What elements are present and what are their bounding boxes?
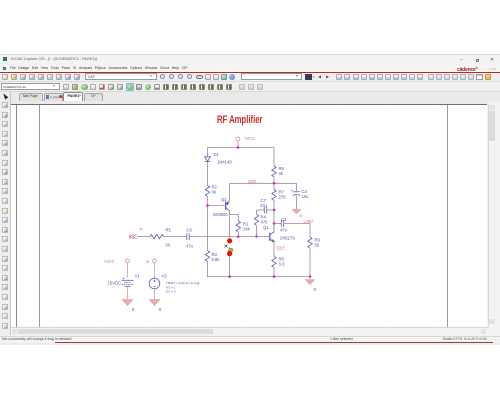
power symbol +VCC top xyxy=(236,137,240,144)
ground 0 bottom right xyxy=(305,277,315,285)
resistor R3 xyxy=(205,251,209,262)
label V1 xyxy=(135,274,141,279)
label D1 xyxy=(214,152,220,157)
wire R1 branch xyxy=(230,215,239,222)
power symbol +VCC left xyxy=(126,259,130,265)
label Q2 xyxy=(221,197,227,202)
wire C3 to load xyxy=(284,224,310,238)
ground 0 under C4 xyxy=(292,210,301,214)
DRC marker bottom red circle xyxy=(227,251,232,256)
resistor R4 xyxy=(254,215,258,226)
label 24k xyxy=(243,227,251,232)
label 47u C3 xyxy=(280,228,288,233)
label 2N5179 xyxy=(280,236,295,241)
wire C6 to Q1 base xyxy=(189,236,269,238)
wire R1 to base rail xyxy=(237,232,239,237)
window bottom edge xyxy=(0,343,500,345)
svg-text:C3: C3 xyxy=(281,217,287,222)
label R9 xyxy=(315,238,321,243)
wire C3 left xyxy=(274,223,281,225)
wire dragged part to ground rail xyxy=(229,256,231,277)
label +VCC top xyxy=(244,136,255,141)
source V2 AC xyxy=(149,278,160,289)
left palette icons xyxy=(1,92,8,99)
junction C3 tap xyxy=(273,222,276,225)
svg-text:3.3: 3.3 xyxy=(279,262,285,267)
bottom scrollbar xyxy=(11,327,488,335)
wire R9 to ground rail xyxy=(309,248,311,277)
svg-text:DC = 0: DC = 0 xyxy=(166,290,176,294)
svg-text:Load: Load xyxy=(304,219,314,224)
wire Q2E rail down to C4 xyxy=(296,183,298,191)
label C7 xyxy=(261,198,267,203)
label R1 xyxy=(243,222,249,227)
wire R4 down to base rail xyxy=(256,225,258,236)
wire C4 to ground xyxy=(296,196,298,210)
svg-text:47u: 47u xyxy=(280,228,288,233)
label 6.8k xyxy=(212,257,221,262)
wire ground rail xyxy=(207,250,209,252)
wire top rail xyxy=(208,147,275,149)
wire rail to D1 xyxy=(207,148,209,157)
wire Q1 emitter down to R8 xyxy=(273,242,275,257)
label C4 xyxy=(302,189,308,194)
label 0 under V2 xyxy=(159,307,162,312)
label 4k xyxy=(279,171,284,176)
resistor R6 xyxy=(272,166,276,177)
svg-text:+VCC: +VCC xyxy=(244,136,255,141)
svg-text:3k: 3k xyxy=(212,190,217,195)
title bar xyxy=(0,55,500,65)
canvas xyxy=(11,101,487,104)
toolbar row 2 xyxy=(0,82,500,92)
label 0 bottom right xyxy=(314,287,317,292)
label R6 xyxy=(279,166,285,171)
left tool palette xyxy=(0,92,11,335)
label 50 R9 xyxy=(315,243,320,248)
svg-text:in: in xyxy=(140,227,144,232)
right scrollbar xyxy=(488,104,497,327)
svg-text:0: 0 xyxy=(300,213,303,218)
junction rail R8 xyxy=(273,275,276,278)
label V2 AC xyxy=(166,285,176,289)
net label Load xyxy=(304,219,314,224)
label R4 xyxy=(261,215,267,220)
svg-text:D1: D1 xyxy=(214,152,220,157)
label 270 xyxy=(279,195,287,200)
junction rail R9 ground xyxy=(309,275,312,278)
label V2 DC xyxy=(166,290,176,294)
svg-text:V2: V2 xyxy=(162,274,168,279)
svg-text:+VCC: +VCC xyxy=(104,259,115,264)
resistor R2 xyxy=(205,186,209,197)
resistor R8 xyxy=(272,257,276,268)
capacitor C6 xyxy=(187,233,189,240)
svg-text:0: 0 xyxy=(132,307,135,312)
label 1N4148 xyxy=(217,160,232,165)
junction at VCC rail xyxy=(237,146,240,149)
svg-text:Q2E: Q2E xyxy=(248,179,256,184)
wire V1 top stub xyxy=(127,265,129,278)
svg-text:24k: 24k xyxy=(243,227,251,232)
svg-text:10u: 10u xyxy=(302,194,310,199)
label R3 xyxy=(212,252,218,257)
resistor R9 xyxy=(308,237,312,248)
label C3 xyxy=(281,217,287,222)
wire V2 top stub xyxy=(154,265,156,278)
label 470 xyxy=(261,220,269,225)
junction C7 right xyxy=(273,209,276,212)
label 3k xyxy=(212,190,217,195)
resistor R1 xyxy=(236,221,240,232)
svg-text:0: 0 xyxy=(159,307,162,312)
junction Q2 base node xyxy=(206,204,209,207)
menu bar xyxy=(0,65,500,72)
wire R6 to Q2E rail xyxy=(273,177,275,183)
label R8 xyxy=(279,257,285,262)
wire Q2E rail xyxy=(230,182,297,184)
label V2 TRAN xyxy=(166,281,199,285)
junction R4 base rail xyxy=(255,235,258,238)
wire Q2 base xyxy=(208,205,225,207)
svg-text:270: 270 xyxy=(279,195,287,200)
wire VCC stub xyxy=(237,144,239,148)
net label in xyxy=(140,227,144,232)
junction R1 bottom xyxy=(237,235,240,238)
wire R3 to rail corner xyxy=(208,261,311,276)
svg-text:47u: 47u xyxy=(260,203,268,208)
label 0 under V1 xyxy=(132,307,135,312)
title text RF Amplifier xyxy=(217,114,263,126)
svg-text:Q1E: Q1E xyxy=(277,246,285,251)
resistor R7 xyxy=(272,190,276,201)
wire in to R5 xyxy=(137,236,150,238)
wire Q2 emitter up to Q2E rail xyxy=(229,183,231,200)
wire R5 to C6 xyxy=(164,236,187,238)
svg-text:50: 50 xyxy=(315,243,320,248)
net label in V2 xyxy=(146,259,150,264)
page frame lines xyxy=(15,105,18,327)
svg-text:RF Amplifier: RF Amplifier xyxy=(217,114,263,126)
diode D1 xyxy=(205,157,211,162)
capacitor C4 polarized xyxy=(291,189,300,195)
label 50 R5 xyxy=(166,243,171,248)
wire V2 to ground xyxy=(154,289,156,300)
svg-text:2N5179: 2N5179 xyxy=(280,236,295,241)
capacitor C3 xyxy=(281,220,283,227)
application window xyxy=(0,53,500,56)
svg-text:C6: C6 xyxy=(187,228,193,233)
label R7 xyxy=(279,190,285,195)
svg-text:V1: V1 xyxy=(135,274,141,279)
dragged part glyph xyxy=(225,245,228,248)
wire C7 right xyxy=(267,209,274,211)
wire D1 to R2 xyxy=(207,162,209,186)
tab bar xyxy=(11,92,500,102)
capacitor C7 xyxy=(264,207,266,214)
wire R2 down through base node crossing input rail xyxy=(207,196,209,250)
svg-text:Q2: Q2 xyxy=(221,197,227,202)
transistor Q1 2N5179 xyxy=(270,232,274,242)
svg-text:0: 0 xyxy=(314,287,317,292)
svg-text:15VDC: 15VDC xyxy=(108,281,122,286)
label R2 xyxy=(212,185,218,190)
source V1 battery xyxy=(122,278,134,287)
svg-text:2N3906: 2N3906 xyxy=(213,212,228,217)
label Q1 xyxy=(263,225,269,230)
svg-text:in: in xyxy=(146,259,150,264)
wire Q1 collector up xyxy=(273,224,275,232)
label 3.3 xyxy=(279,262,285,267)
junction rail drag part xyxy=(228,275,231,278)
ground 0 under V1 xyxy=(122,300,133,306)
label +VCC left xyxy=(104,259,115,264)
red separator xyxy=(0,72,500,73)
label 15VDC xyxy=(108,281,122,286)
net label Q2E xyxy=(248,179,256,184)
svg-text:47u: 47u xyxy=(186,244,194,249)
wire C7 left to R4 xyxy=(257,210,265,215)
DRC marker top red circle xyxy=(227,238,232,243)
wire R8 to ground rail xyxy=(273,267,275,276)
svg-text:50: 50 xyxy=(166,243,171,248)
label 0 under C4 xyxy=(300,213,303,218)
wire Q2E to R7 xyxy=(273,183,275,189)
wire R7 down to Q1 collector xyxy=(273,200,275,232)
svg-text:6.8k: 6.8k xyxy=(212,257,221,262)
power symbol in above V2 xyxy=(153,259,157,265)
svg-text:Q1: Q1 xyxy=(263,225,269,230)
transistor Q2 2N3906 xyxy=(226,201,230,211)
toolbar row2 icons xyxy=(0,82,500,91)
off-page connector in xyxy=(130,234,137,239)
wire top rail down to R6 xyxy=(273,148,275,167)
wire V1 to ground xyxy=(127,286,129,299)
label C6 xyxy=(187,228,193,233)
label 47u C6 xyxy=(186,244,194,249)
label 10u xyxy=(302,194,310,199)
toolbar row1 icons xyxy=(0,72,500,81)
label V2 xyxy=(162,274,168,279)
toolbar row 1 xyxy=(0,73,500,82)
ground 0 under V2 xyxy=(149,300,160,306)
svg-text:R5: R5 xyxy=(166,228,172,233)
resistor R5 xyxy=(150,234,164,238)
status bar xyxy=(0,336,500,343)
wire Q2 collector down xyxy=(229,211,231,238)
label R5 xyxy=(166,228,172,233)
dragged part body xyxy=(228,248,233,253)
net label Q1E xyxy=(277,246,285,251)
label 47u C7 xyxy=(260,203,268,208)
svg-text:1N4148: 1N4148 xyxy=(217,160,232,165)
junction R6 R7 Q2E xyxy=(273,182,276,185)
svg-text:4k: 4k xyxy=(279,171,284,176)
label 2N3906 xyxy=(213,212,228,217)
svg-text:470: 470 xyxy=(261,220,269,225)
